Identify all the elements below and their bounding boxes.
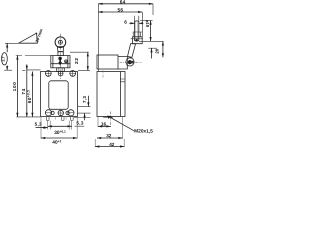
op arrow right xyxy=(151,48,153,58)
conduit boss edge side view xyxy=(103,116,113,118)
dim dia19 line xyxy=(150,21,152,42)
svg-text:30°max: 30°max xyxy=(34,27,44,43)
bottom screw right front view xyxy=(68,110,74,116)
svg-text:30+0,1: 30+0,1 xyxy=(54,130,66,136)
bottom cover screw left front view xyxy=(51,111,54,114)
top screw left front view xyxy=(45,71,51,77)
head centerline side view xyxy=(102,70,104,78)
dim 40 line xyxy=(41,137,77,139)
dim 6 arrows xyxy=(129,22,134,24)
ext lines feet right xyxy=(69,121,72,130)
svg-text:100: 100 xyxy=(12,82,18,92)
roller front view xyxy=(55,37,66,48)
svg-text:20: 20 xyxy=(154,48,159,53)
ext line 7.3 top xyxy=(78,106,91,108)
bottom screw left front view xyxy=(45,110,51,116)
side view body xyxy=(97,72,125,117)
svg-text:6: 6 xyxy=(124,20,127,25)
foot left front view xyxy=(46,117,49,121)
top screw right front view xyxy=(70,71,76,77)
dim 5.3 left line xyxy=(36,127,48,129)
ext line pivot left xyxy=(22,69,25,71)
ext line 40 right xyxy=(76,117,78,139)
svg-text:22: 22 xyxy=(74,58,80,64)
dim 64 line xyxy=(98,3,153,5)
ext body bottom right xyxy=(74,117,91,119)
side view head boss xyxy=(118,57,127,69)
svg-text:5,3: 5,3 xyxy=(35,122,42,127)
svg-text:56: 56 xyxy=(117,8,123,13)
ext line 42 left xyxy=(94,139,96,147)
side view cover line xyxy=(119,72,121,117)
side view head xyxy=(97,55,118,69)
side view hub xyxy=(126,58,134,66)
leader M20 xyxy=(108,116,134,131)
ext line hole center right xyxy=(78,112,91,114)
ext line roller level left xyxy=(5,42,19,44)
bottom hole center front view xyxy=(58,110,63,115)
svg-text:M20x1,5: M20x1,5 xyxy=(134,129,153,135)
lever arm front view xyxy=(57,47,63,52)
ext line body top right xyxy=(78,70,90,72)
dim 56 line xyxy=(98,11,142,13)
dim 5.3 right arrow xyxy=(84,113,86,120)
ext line 40 left xyxy=(40,117,42,139)
ext lines feet left xyxy=(48,121,51,130)
svg-text:42: 42 xyxy=(109,142,115,147)
foot center front view xyxy=(62,117,65,121)
actuation arrow front view xyxy=(58,62,62,66)
body front view xyxy=(41,72,78,117)
ext line 42 right xyxy=(123,139,125,147)
ext line 32 right xyxy=(122,117,124,139)
svg-text:7,3: 7,3 xyxy=(82,96,87,103)
dim 74 line xyxy=(26,64,28,70)
svg-text:32: 32 xyxy=(106,133,112,138)
roller axle side view xyxy=(135,39,137,41)
dim 42 line xyxy=(95,146,124,148)
dim 60 line xyxy=(31,72,33,118)
dim 17 line right xyxy=(162,41,164,57)
ext line 64-56 left xyxy=(97,4,99,71)
side view roller xyxy=(135,21,139,41)
conduit boss front view xyxy=(55,117,66,120)
ext line 16 left xyxy=(97,117,99,128)
svg-text:16: 16 xyxy=(101,122,107,128)
svg-text:2,7: 2,7 xyxy=(2,57,6,62)
ext roller bottom long xyxy=(139,40,163,42)
dim 7.3 arrows xyxy=(87,96,89,107)
ext line 56 right xyxy=(141,12,143,36)
ext roller top xyxy=(140,20,152,22)
ext lines roller width xyxy=(135,16,139,22)
dim 16 line xyxy=(98,125,111,127)
ext line body top left xyxy=(4,69,40,71)
top screw center front view xyxy=(58,71,63,76)
conduit centerline xyxy=(110,112,112,128)
svg-text:⌀19: ⌀19 xyxy=(145,20,150,28)
ext line body bottom left xyxy=(16,116,40,118)
dim 100 line xyxy=(16,55,18,117)
svg-text:40+1: 40+1 xyxy=(52,139,61,145)
head base front view xyxy=(57,68,65,72)
svg-text:64: 64 xyxy=(120,0,126,5)
side view terminal marks xyxy=(120,79,125,82)
side view fork xyxy=(133,37,143,44)
dim 22 line xyxy=(87,52,89,70)
ext line head top left xyxy=(16,55,51,57)
ext line 64 right xyxy=(152,4,154,15)
cover plate front view xyxy=(49,81,68,110)
svg-text:5,3: 5,3 xyxy=(76,121,83,126)
bottom cover screw right front view xyxy=(66,111,69,114)
dim balloon line xyxy=(6,43,8,70)
head screw front view xyxy=(65,60,68,63)
op line right xyxy=(148,47,157,49)
pretravel triangle xyxy=(19,33,38,43)
pivot dot front view xyxy=(58,57,62,61)
ext line lever collar right xyxy=(70,51,89,53)
head front view xyxy=(51,56,70,68)
centerline front view xyxy=(60,34,62,79)
dim 30 line xyxy=(48,125,72,127)
side view lever arm xyxy=(128,44,136,58)
balloon ellipse xyxy=(2,53,8,65)
dim 32 line xyxy=(97,137,123,139)
foot right front view xyxy=(71,117,74,121)
